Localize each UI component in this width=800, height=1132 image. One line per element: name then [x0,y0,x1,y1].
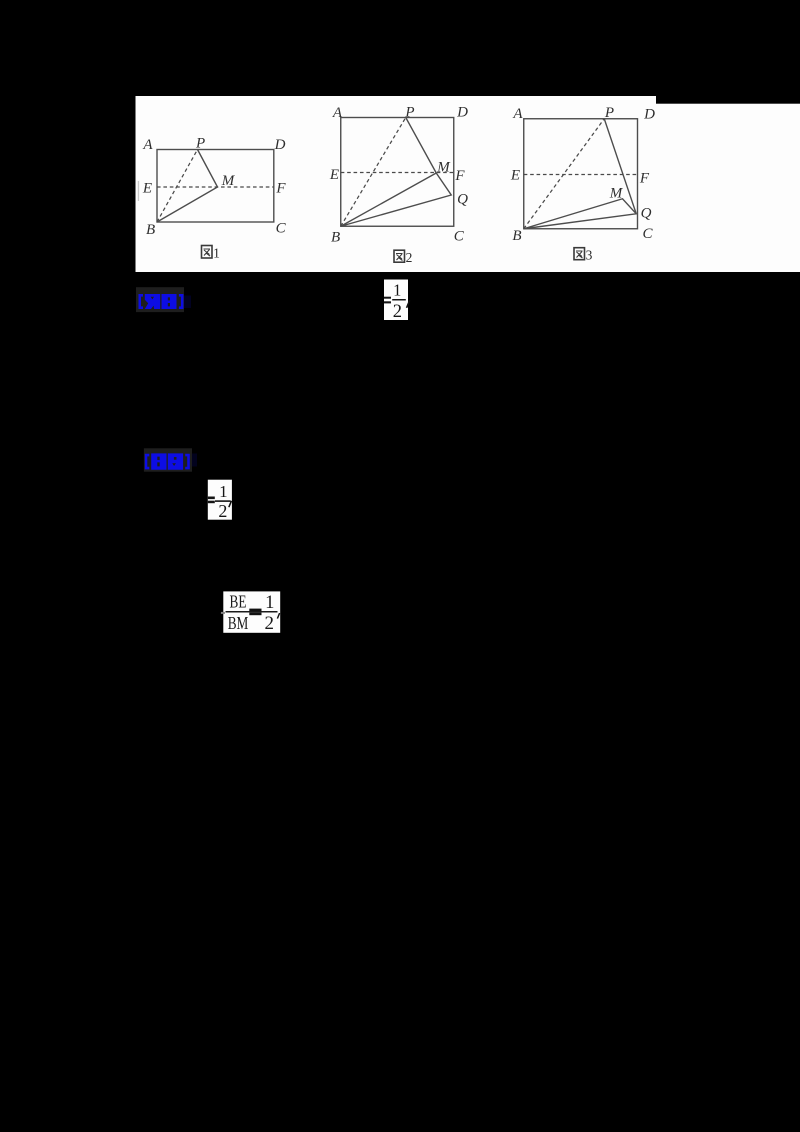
svg-text:D: D [456,105,468,121]
svg-text:A: A [512,106,523,122]
svg-text:E: E [510,168,520,184]
svg-text:BM: BM [228,614,249,634]
svg-text:Q: Q [641,205,652,221]
svg-text:1: 1 [219,482,228,501]
svg-text:M: M [609,186,624,202]
svg-text:B: B [331,230,340,246]
svg-text:F: F [275,181,286,197]
svg-text:F: F [454,168,465,184]
svg-text:1: 1 [213,245,220,260]
svg-text:1: 1 [393,281,401,300]
svg-text:B: B [512,228,521,244]
svg-text:A: A [142,137,153,153]
svg-text:M: M [221,173,236,189]
svg-text:D: D [274,137,286,153]
svg-text:D: D [643,107,655,123]
svg-text:3: 3 [586,248,593,263]
svg-text:C: C [276,221,287,237]
svg-text:M: M [436,160,451,176]
svg-text:C: C [642,226,653,242]
svg-text:2: 2 [218,501,227,521]
svg-text:E: E [329,167,339,183]
svg-text:C: C [454,228,465,244]
svg-text:E: E [142,181,152,197]
svg-text:A: A [332,105,343,121]
svg-text:Q: Q [457,191,468,207]
svg-text:P: P [195,136,205,152]
svg-text:BE: BE [230,593,247,613]
svg-text:2: 2 [406,250,413,265]
svg-text:B: B [146,222,155,238]
svg-text:P: P [604,105,614,121]
svg-text:2: 2 [265,613,275,634]
svg-text:P: P [404,105,414,121]
svg-text:F: F [639,170,650,186]
svg-text:1: 1 [265,593,274,613]
svg-text:2: 2 [393,302,402,322]
